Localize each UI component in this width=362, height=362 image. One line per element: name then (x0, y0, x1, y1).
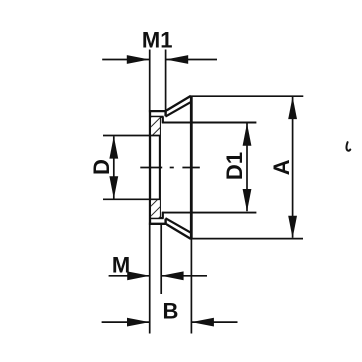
cone outer wall top (167, 96, 191, 111)
cone inner wall top (165, 102, 190, 117)
extension lines D (103, 136, 160, 200)
extension line B left / face projection (149, 225, 151, 334)
plug face inner edge (159, 117, 161, 219)
flange lip bottom surface (149, 223, 167, 225)
stray glyph (346, 142, 350, 151)
bore edge bottom / extension D1 (162, 212, 256, 214)
flange lip top right edge (164, 110, 166, 116)
extension line B right / rim projection (190, 239, 192, 334)
flange lip bottom overside (151, 217, 164, 219)
extension lines M1 (150, 50, 166, 111)
flange lip bottom right edge (164, 219, 166, 225)
bore edge top / extension D1 (162, 122, 256, 124)
bore corner top (162, 117, 164, 124)
dimension line D (109, 136, 118, 199)
cone outer wall bottom (167, 224, 191, 239)
svg-text:A: A (269, 159, 294, 175)
svg-text:D1: D1 (222, 152, 247, 180)
dimension line D1 (243, 123, 252, 211)
flange lip top surface (149, 110, 167, 112)
dimension line M (109, 271, 207, 280)
svg-text:B: B (162, 299, 178, 324)
flange lip top underside (151, 116, 164, 118)
hatched lip section top (151, 117, 160, 135)
bore corner bottom (162, 212, 164, 219)
plug face outer edge (149, 110, 151, 225)
dimension line B (102, 318, 238, 327)
svg-text:D: D (89, 159, 114, 175)
centerline (140, 167, 200, 169)
extension line M right (160, 225, 162, 294)
extension lines A (191, 96, 304, 238)
svg-text:M1: M1 (142, 28, 173, 53)
dimension line A (288, 97, 297, 239)
hatched lip section bottom (151, 200, 160, 218)
rim face (190, 96, 193, 239)
cone inner wall bottom (165, 218, 190, 233)
dimension line M1 (102, 55, 217, 64)
